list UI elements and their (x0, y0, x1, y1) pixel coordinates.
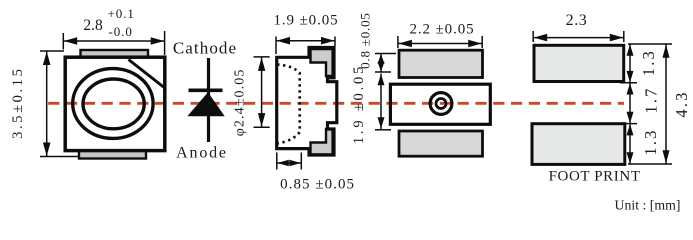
dimension 4.3 bottom arrow (663, 150, 670, 163)
dimension 0.8 bottom arrow (378, 62, 385, 72)
LED diode D1 anode triangle (187, 92, 224, 116)
dimension 0.85 line (277, 162, 302, 164)
LED diode D1 cathode bar (189, 89, 223, 93)
front view lens inner ring (83, 79, 144, 129)
dimension 2.8 left arrow (64, 37, 77, 45)
svg-text:2.8: 2.8 (83, 17, 103, 34)
LED diode D1 vertical lead wire (207, 58, 210, 142)
svg-text:1.3: 1.3 (641, 128, 660, 155)
svg-text:4.3: 4.3 (672, 90, 691, 117)
side view top lead fill (311, 49, 333, 76)
dimension 2.3 right arrow (610, 34, 624, 42)
dimension 2.3 extension lines (532, 31, 534, 42)
dimension 1.9 (side view) extension lines (275, 37, 277, 55)
svg-text:1.7: 1.7 (642, 86, 661, 113)
dimension 2.2 left arrow (398, 40, 412, 48)
back view center dimple outer circle (430, 93, 452, 115)
front view bottom electrode tab fill (79, 151, 146, 159)
dimension 4.3 line (665, 44, 667, 164)
dimension 0.8 top arrow (378, 54, 385, 64)
dimension 0.85 extension lines (276, 153, 278, 170)
dimension phi2.4 extension ticks (254, 56, 270, 58)
dimension 3.5 extension lines (40, 50, 64, 52)
dimension 3.5 top arrow (43, 52, 51, 66)
dimension 0.85 left arrow (277, 160, 289, 167)
back view bottom electrode bar fill (399, 131, 483, 156)
front view corner chamfer mark (129, 60, 165, 89)
dimension 3.5 line (46, 51, 48, 157)
front view top electrode tab fill (81, 50, 149, 57)
svg-text:Unit : [mm]: Unit : [mm] (615, 198, 681, 213)
dimension 2.8 extension lines (62, 33, 64, 50)
red dashed center axis line (48, 102, 624, 105)
svg-text:-0.0: -0.0 (109, 24, 133, 39)
dimension phi2.4 top arrow (258, 57, 265, 71)
dimension 2.3 line (533, 37, 624, 39)
svg-text:φ2.4±0.05: φ2.4±0.05 (233, 69, 248, 137)
svg-text:3.5±0.15: 3.5±0.15 (10, 67, 26, 139)
side view bottom lead fill (311, 129, 333, 155)
dimension 2.8 right arrow (151, 37, 164, 45)
svg-text:0.85 ±0.05: 0.85 ±0.05 (280, 176, 355, 192)
dimension 2.2 right arrow (468, 40, 482, 48)
svg-text:1.9 ±0.05: 1.9 ±0.05 (273, 13, 338, 29)
dimension 1.3 bottom arrows (627, 124, 634, 135)
dimension 1.9 (side view) line (276, 40, 335, 42)
dimension 2.2 extension lines (397, 36, 399, 48)
svg-text:Anode: Anode (176, 145, 228, 162)
front view body outline (65, 57, 165, 150)
footprint segment ticks (620, 82, 637, 84)
dimension 0.85 right arrow (289, 160, 301, 167)
back view middle band outline (390, 84, 490, 124)
svg-text:+0.1: +0.1 (108, 6, 135, 21)
dimension 1.9 (side view) right arrow (321, 37, 335, 45)
svg-text:0.8 ±0.05: 0.8 ±0.05 (357, 12, 372, 69)
dimension 1.7 arrows (627, 83, 634, 94)
side view hidden lens dome (dotted) (277, 65, 300, 144)
svg-text:2.2 ±0.05: 2.2 ±0.05 (409, 22, 474, 38)
footprint bottom pad fill (532, 124, 625, 165)
dimension 1.3 top arrows (627, 45, 634, 56)
front view lens outer ring (73, 69, 153, 139)
dimension phi2.4 bottom arrow (258, 113, 265, 127)
svg-text:1.3: 1.3 (639, 49, 658, 76)
dimension 1.9 (back view) line (380, 74, 382, 130)
svg-text:Cathode: Cathode (173, 38, 237, 57)
dimension 1.9 (back view) bottom arrow (378, 117, 385, 128)
svg-text:FOOT PRINT: FOOT PRINT (549, 169, 641, 185)
dimension 1.3/1.7/1.3 line (629, 44, 631, 164)
dimension 1.9 (side view) left arrow (277, 37, 291, 45)
dimension 1.9 (back view) top arrow (378, 74, 385, 85)
front view body white fill (65, 57, 165, 150)
dimension 0.8 extension lines (375, 53, 396, 55)
dimension 4.3 top arrow (663, 45, 670, 58)
back view top electrode bar fill (399, 50, 483, 77)
dimension 0.8 line (380, 54, 382, 73)
footprint top pad fill (534, 45, 624, 81)
dimension 2.2 line (398, 43, 482, 45)
svg-text:2.3: 2.3 (566, 12, 588, 29)
back view center dimple inner circle (436, 99, 446, 109)
dimension 1.9 (back view) extension line (375, 129, 391, 131)
back view middle band white fill (390, 84, 490, 124)
svg-text:1.9 ±0.05: 1.9 ±0.05 (351, 64, 367, 144)
dimension 3.5 bottom arrow (43, 143, 51, 157)
dimension 2.8 line (63, 40, 164, 42)
dimension 2.3 left arrow (534, 34, 548, 42)
side view body outline (277, 48, 337, 156)
dimension phi2.4 line (261, 57, 263, 127)
